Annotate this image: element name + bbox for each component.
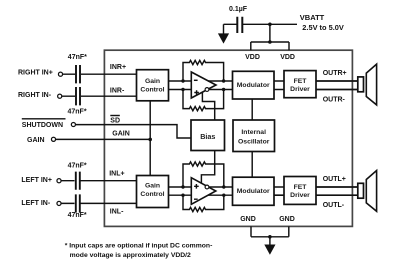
op-amp A2 lower [191,178,216,205]
resistor R1 upper feedback top [183,60,224,81]
svg-text:GAIN: GAIN [27,137,45,144]
node lower plus tap [181,185,184,188]
svg-text:Internal: Internal [241,129,266,136]
capacitor C4 47nF [76,172,80,190]
svg-text:2.5V to 5.0V: 2.5V to 5.0V [302,23,344,32]
wire GND bus [251,226,289,245]
svg-text:OUTR+: OUTR+ [323,70,347,77]
wire OUTR- [316,89,358,91]
svg-text:Modulator: Modulator [237,82,270,89]
wire RIGHT IN+ [63,73,137,75]
svg-text:47nF*: 47nF* [68,109,87,116]
capacitor C1 0.1uF plates [237,17,242,33]
node upper out- tap [222,88,225,91]
wire modulator to FET upper [274,81,284,90]
node VDD bus junction [268,40,272,44]
wire oscillator to modulators [251,99,253,177]
wire lower amp plus input [169,186,192,188]
svg-text:Driver: Driver [290,86,310,93]
resistor R3 lower feedback top [183,162,224,187]
node lower minus tap [181,194,184,197]
svg-text:INL+: INL+ [109,170,124,177]
resistor R2 upper feedback bottom [183,90,224,111]
svg-text:INL-: INL- [110,209,124,216]
inversion bubble lower [205,185,209,189]
block Bias [191,120,225,151]
svg-text:Modulator: Modulator [237,188,270,195]
wire upper amp out+ [208,80,233,82]
speaker SP2 [358,183,364,198]
ground symbol bottom [264,245,275,255]
svg-text:Bias: Bias [200,132,215,141]
block Gain Control upper [137,70,169,101]
svg-text:mode voltage is approximately: mode voltage is approximately VDD/2 [70,252,191,259]
svg-text:47nF*: 47nF* [68,162,87,169]
svg-text:SHUTDOWN: SHUTDOWN [22,122,63,129]
svg-text:Control: Control [140,86,164,93]
svg-text:LEFT IN+: LEFT IN+ [21,177,52,184]
capacitor C3 47nF [76,87,80,105]
wire lower amp out+ [208,194,232,196]
wire SD [76,125,191,138]
wire bias to lower amp [201,151,214,184]
node upper minus tap [181,79,184,82]
svg-text:VBATT: VBATT [300,13,325,22]
svg-text:RIGHT IN-: RIGHT IN- [18,92,52,99]
svg-text:LEFT IN-: LEFT IN- [21,200,50,207]
wire upper amp plus input [169,89,192,91]
svg-text:INR-: INR- [110,87,125,94]
IC boundary box U1 [104,50,352,226]
svg-text:INR+: INR+ [110,64,126,71]
wire LEFT IN+ [61,180,136,182]
svg-text:GND: GND [279,216,295,223]
wire LEFT IN- [61,202,136,204]
block FET Driver upper [284,71,316,98]
node upper plus tap [181,88,184,91]
svg-text:* Input caps are optional if i: * Input caps are optional if input DC co… [65,242,213,249]
svg-text:Gain: Gain [145,183,160,190]
svg-text:Oscillator: Oscillator [238,138,270,145]
svg-text:OUTL-: OUTL- [323,202,345,209]
svg-text:47nF*: 47nF* [68,212,87,219]
svg-text:VDD: VDD [245,54,260,61]
node lower out- tap [222,185,225,188]
svg-text:FET: FET [294,184,308,191]
node ground junction [268,235,272,239]
block Internal Oscillator [233,120,275,152]
block Modulator upper [233,71,275,99]
node gain junction [148,138,152,142]
resistor R4 lower feedback bottom [183,195,224,211]
node upper out+ tap [222,79,225,82]
wire VBATT supply rail [224,23,298,25]
block Gain Control lower [137,176,169,208]
wire OUTR+ [316,80,358,82]
speaker SP1 [358,77,364,92]
wire bias to upper amp [202,92,214,120]
svg-text:47nF*: 47nF* [68,54,87,61]
svg-text:Gain: Gain [145,78,160,85]
capacitor C2 47nF [76,65,80,83]
svg-text:GND: GND [240,216,256,223]
wire OUTL+ [316,186,358,188]
svg-text:OUTR-: OUTR- [323,97,346,104]
wire modulator to FET lower [274,187,284,195]
svg-text:OUTL+: OUTL+ [323,176,346,183]
svg-text:SD: SD [110,118,120,125]
svg-text:Control: Control [140,191,164,198]
svg-text:VDD: VDD [280,54,295,61]
inversion bubble upper [205,88,209,92]
svg-text:RIGHT IN+: RIGHT IN+ [18,70,53,77]
svg-text:FET: FET [294,78,308,85]
wire RIGHT IN- [62,95,137,97]
node supply junction [268,23,272,27]
wire VDD feed [251,24,289,50]
wire upper amp out- [209,89,232,91]
wire lower amp minus input [169,194,192,196]
block FET Driver lower [284,177,316,205]
op-amp A1 upper [191,72,216,98]
wire GAIN [56,138,151,140]
svg-text:GAIN: GAIN [112,130,130,137]
svg-text:0.1µF: 0.1µF [229,6,248,13]
block Modulator lower [233,177,275,205]
wire upper amp minus input [169,80,192,82]
node lower out+ tap [222,194,225,197]
wire gain link [149,101,151,176]
capacitor C5 47nF [76,194,80,212]
ground symbol top [223,24,225,34]
wire OUTL- [316,194,358,196]
wire lower amp out- [209,186,232,188]
svg-text:Driver: Driver [290,192,310,199]
